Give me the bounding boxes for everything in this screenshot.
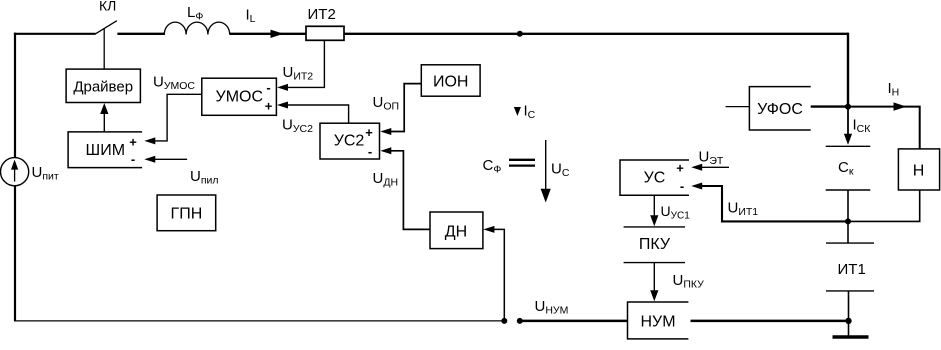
inductor LФ [164, 22, 229, 34]
current sensor ИТ1 bottom plate [826, 290, 874, 292]
svg-text:UС: UС [551, 161, 570, 180]
svg-text:ДН: ДН [445, 224, 467, 241]
wire: УФОС output to node [811, 105, 848, 107]
svg-text:UДН: UДН [373, 170, 399, 189]
node: junction dot mid right [845, 218, 851, 224]
wire: node to load Н with arrow IН [848, 107, 920, 149]
node: junction dot bottom rail at СФ tap [517, 318, 523, 324]
svg-text:УФОС: УФОС [757, 101, 803, 118]
svg-text:-: - [368, 144, 372, 159]
wire: ИОН reference to УС2 plus [391, 84, 421, 132]
current sensor ИТ1 top plate [826, 242, 874, 244]
wire: ИТ2 sensor down and into УМОС minus [288, 40, 324, 87]
svg-text:UНУМ: UНУМ [535, 298, 569, 317]
svg-text:UПКУ: UПКУ [673, 272, 705, 291]
svg-text:-: - [266, 80, 270, 95]
wire: ДН output to УС2 minus [391, 151, 430, 230]
block ИОН [421, 65, 480, 96]
wire: left vertical from top rail to source Uпит [14, 33, 16, 158]
wire: ПКУ to НУМ with arrow [653, 263, 655, 293]
svg-text:UУМОС: UУМОС [153, 74, 195, 93]
source Uпит inner arrow [12, 162, 17, 182]
svg-text:UУС2: UУС2 [282, 117, 313, 136]
svg-text:ИТ2: ИТ2 [308, 6, 336, 23]
svg-text:ГПН: ГПН [171, 206, 203, 223]
wire: U_ИТ1 feedback from mid node to УС minus [702, 186, 848, 221]
svg-text:UОП: UОП [373, 94, 400, 113]
wire: НУМ output to ИТ1 node (thick) [691, 320, 850, 323]
capacitor СК bottom plate [826, 189, 871, 191]
load Н [898, 149, 939, 190]
svg-text:IL: IL [246, 7, 256, 26]
wire: Н bottom to mid node [848, 190, 920, 221]
svg-text:LФ: LФ [187, 4, 203, 23]
block УФОС (open right side) [749, 87, 810, 130]
wire: bottom rail up into ДН input [494, 229, 504, 321]
block УС2 [320, 123, 380, 159]
node: junction dot bottom right [845, 318, 851, 324]
svg-text:УМОС: УМОС [216, 89, 264, 106]
svg-text:UИТ1: UИТ1 [728, 200, 759, 219]
wire: УМОС output to ШИМ plus input [155, 94, 202, 141]
svg-text:УС: УС [644, 170, 666, 187]
svg-text:UИТ2: UИТ2 [283, 64, 314, 83]
block ШИМ (open right side) [68, 132, 142, 168]
annotation arrow UC [542, 140, 550, 201]
wire: Uпил input to ШИМ minus [155, 158, 187, 160]
wire: bottom rail thick segment to НУМ [520, 320, 628, 323]
svg-text:+: + [129, 135, 137, 150]
wire: switch control line down to Драйвер [103, 29, 105, 70]
wire: УС2 output to УМОС plus [288, 105, 349, 123]
svg-text:+: + [365, 125, 373, 140]
svg-text:UУС1: UУС1 [661, 203, 691, 222]
svg-text:-: - [131, 152, 135, 167]
block УМОС [202, 78, 277, 115]
wire: СК bottom to mid node [847, 190, 849, 221]
svg-text:ИТ1: ИТ1 [838, 261, 866, 278]
source Uпит circle [1, 158, 29, 186]
svg-text:СФ: СФ [483, 157, 502, 176]
svg-text:НУМ: НУМ [640, 314, 675, 331]
svg-text:+: + [676, 161, 684, 176]
capacitor СФ symbol [509, 160, 535, 166]
svg-text:ШИМ: ШИМ [86, 142, 126, 159]
wire: bottom rail thin segment [14, 320, 506, 322]
wire: top rail from switch to inductor [117, 33, 165, 35]
block ПКУ bottom line [624, 262, 685, 264]
svg-text:-: - [680, 179, 684, 194]
wire: UЭТ reference into УС plus [702, 166, 729, 168]
wire: ИТ1 down to bottom rail node and ground [848, 291, 850, 336]
wire: top rail from ИТ2 to right corner [344, 33, 848, 35]
svg-text:Ск: Ск [838, 159, 854, 178]
svg-text:Н: Н [913, 163, 925, 180]
wire: right vertical from top rail down to УФОС output node [847, 33, 849, 107]
node: junction dot bottom rail at ДН branch [501, 318, 507, 324]
arrow IL on top rail [271, 30, 284, 38]
current sensor ИТ2 [306, 26, 344, 40]
switch КЛ blade [95, 21, 117, 34]
block УС (open right side) [620, 160, 689, 195]
wire: node down to СК with arrow IСК [847, 107, 849, 134]
capacitor СК top plate [826, 145, 871, 147]
svg-text:IН: IН [888, 80, 900, 99]
wire: mid node down to ИТ1 [847, 221, 849, 243]
svg-text:Uпил: Uпил [190, 168, 219, 187]
wire: top rail left segment to switch [14, 33, 96, 35]
ground [833, 335, 869, 339]
svg-text:КЛ: КЛ [99, 0, 116, 14]
block ПКУ top line [624, 226, 685, 228]
svg-text:Uпит: Uпит [32, 164, 59, 183]
svg-text:IС: IС [524, 103, 536, 122]
node: junction dot at УФОС output [845, 104, 851, 110]
block ГПН [157, 195, 216, 231]
block Драйвер [66, 69, 140, 102]
wire: top rail from inductor to ИТ2 [230, 33, 306, 35]
wire: УФОС input stub [726, 106, 750, 108]
svg-text:ИОН: ИОН [433, 74, 469, 91]
svg-text:UЭТ: UЭТ [699, 149, 724, 168]
wire: УС output to ПКУ with arrow [653, 195, 655, 218]
svg-text:Драйвер: Драйвер [73, 79, 133, 96]
svg-text:IСК: IСК [853, 117, 872, 136]
svg-text:УС2: УС2 [334, 133, 365, 150]
annotation arrow IC [514, 107, 521, 116]
block НУМ (open right side) [628, 302, 689, 339]
svg-text:ПКУ: ПКУ [639, 236, 671, 253]
wire: ШИМ to Драйвер with arrow [103, 111, 105, 132]
block ДН [430, 212, 483, 249]
wire: left vertical from source to bottom rail [14, 186, 16, 322]
node: junction dot on top rail (CФ tap) [517, 31, 523, 37]
svg-text:+: + [265, 99, 273, 114]
